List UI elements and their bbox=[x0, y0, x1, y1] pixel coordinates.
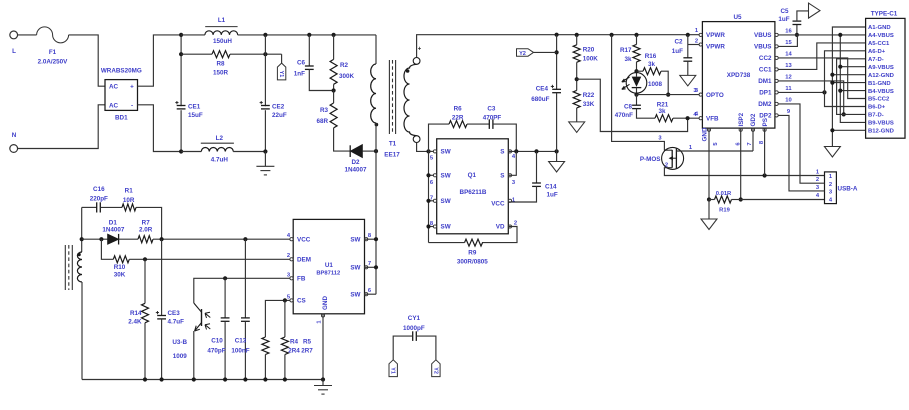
junction bbox=[575, 77, 579, 81]
net flag VBUS arrow bbox=[809, 3, 821, 18]
svg-text:A12-GND: A12-GND bbox=[868, 73, 894, 79]
svg-text:BP6211B: BP6211B bbox=[460, 189, 487, 196]
svg-text:B6-D+: B6-D+ bbox=[868, 105, 886, 111]
svg-text:22uF: 22uF bbox=[272, 112, 287, 119]
svg-text:14: 14 bbox=[785, 52, 792, 58]
wire bbox=[416, 336, 436, 360]
svg-text:1008: 1008 bbox=[648, 81, 663, 88]
svg-text:U1: U1 bbox=[325, 262, 334, 269]
wire bbox=[138, 105, 182, 152]
svg-text:L1: L1 bbox=[218, 17, 226, 24]
wire bbox=[161, 319, 163, 380]
svg-text:Q1: Q1 bbox=[468, 172, 477, 179]
svg-text:SW: SW bbox=[441, 224, 451, 231]
svg-text:300K: 300K bbox=[339, 73, 355, 80]
svg-text:SW: SW bbox=[441, 198, 451, 205]
svg-text:1nF: 1nF bbox=[294, 71, 305, 78]
wire VBUS row bbox=[778, 34, 865, 36]
svg-text:470nF: 470nF bbox=[615, 112, 633, 119]
svg-text:U5: U5 bbox=[733, 14, 742, 21]
ground triangle R19 bbox=[701, 219, 717, 230]
wire bbox=[365, 293, 377, 295]
wire B12 bbox=[832, 129, 865, 131]
wire bbox=[429, 200, 437, 202]
wire bbox=[467, 123, 489, 125]
svg-text:GND: GND bbox=[322, 296, 329, 310]
wire bbox=[687, 61, 689, 75]
junction bbox=[192, 377, 196, 381]
wire bbox=[576, 108, 578, 122]
wire bbox=[375, 123, 377, 151]
svg-text:1N4007: 1N4007 bbox=[102, 227, 125, 234]
junction bbox=[321, 377, 325, 381]
svg-text:30K: 30K bbox=[114, 272, 126, 279]
wire bbox=[136, 207, 162, 239]
wire bbox=[362, 150, 376, 152]
junction bbox=[634, 69, 638, 73]
diode D2 bbox=[344, 145, 367, 174]
wire source to USB1 bbox=[664, 168, 824, 176]
svg-text:680uF: 680uF bbox=[531, 96, 549, 103]
junction bbox=[514, 149, 518, 153]
svg-text:2R4: 2R4 bbox=[288, 348, 300, 355]
junction bbox=[426, 199, 430, 203]
wire VCC row bbox=[153, 238, 293, 240]
wire bbox=[556, 35, 558, 152]
transformer T1 secondary winding bbox=[404, 47, 422, 143]
resistor R22 bbox=[573, 90, 595, 108]
svg-text:2: 2 bbox=[695, 39, 698, 45]
capacitor C16 bbox=[97, 202, 101, 212]
svg-text:L2: L2 bbox=[216, 135, 224, 142]
resistor R8 bbox=[212, 51, 230, 77]
svg-text:13: 13 bbox=[785, 63, 792, 69]
wire GND bus bbox=[832, 27, 865, 147]
junction bbox=[555, 149, 559, 153]
transistor P-MOS bbox=[640, 147, 684, 169]
wire bbox=[230, 53, 282, 55]
terminal N bbox=[10, 145, 18, 153]
junction bbox=[838, 33, 842, 37]
inductor L1 bbox=[205, 17, 238, 45]
svg-text:R10: R10 bbox=[114, 264, 126, 271]
svg-text:R4: R4 bbox=[290, 339, 299, 346]
svg-text:+: + bbox=[130, 84, 134, 91]
svg-text:VD: VD bbox=[496, 224, 505, 231]
svg-text:C8: C8 bbox=[624, 104, 633, 111]
wire OPTO bbox=[637, 94, 700, 96]
wire bbox=[375, 151, 377, 294]
IC U1 BP87112 bbox=[293, 219, 364, 313]
svg-text:R7: R7 bbox=[142, 220, 151, 227]
net flag Y2 bbox=[517, 49, 534, 57]
capacitor CE2 bbox=[261, 106, 270, 109]
ground (earth) U1 bbox=[314, 386, 332, 395]
svg-text:10R: 10R bbox=[123, 197, 135, 204]
svg-text:A6-D+: A6-D+ bbox=[868, 49, 886, 55]
svg-text:220pF: 220pF bbox=[90, 196, 108, 203]
wire feedback tap bbox=[577, 79, 688, 131]
wire DP2 to USB3 bbox=[778, 115, 824, 190]
wire bbox=[81, 282, 83, 380]
junction bbox=[263, 52, 267, 56]
svg-text:B4-VBUS: B4-VBUS bbox=[868, 89, 894, 95]
wire bbox=[534, 51, 557, 53]
svg-text:16: 16 bbox=[785, 29, 792, 35]
svg-text:CE4: CE4 bbox=[536, 86, 549, 93]
wire bbox=[224, 278, 226, 318]
junction bbox=[263, 149, 267, 153]
wire bbox=[101, 239, 113, 259]
wire bbox=[224, 321, 226, 379]
wire VBUS bus bbox=[840, 35, 865, 123]
wire bbox=[82, 206, 97, 208]
wire bbox=[661, 71, 668, 94]
wire bbox=[18, 105, 105, 149]
capacitor C8 bbox=[632, 105, 641, 108]
svg-text:N: N bbox=[12, 132, 17, 139]
svg-text:CS: CS bbox=[297, 298, 306, 305]
svg-text:A5-CC1: A5-CC1 bbox=[868, 41, 890, 47]
svg-text:100K: 100K bbox=[583, 56, 599, 63]
junction bbox=[374, 265, 378, 269]
svg-text:ISP2: ISP2 bbox=[738, 112, 745, 126]
svg-text:0.01R: 0.01R bbox=[716, 191, 732, 197]
net flag Y2 bottom bbox=[432, 360, 440, 377]
junction bbox=[179, 149, 183, 153]
capacitor C5 bbox=[793, 21, 802, 24]
wire GD2 stub bbox=[752, 128, 754, 151]
svg-text:C10: C10 bbox=[211, 338, 223, 345]
wire bbox=[308, 35, 310, 66]
svg-text:U3-B: U3-B bbox=[172, 339, 187, 346]
junction bbox=[332, 33, 336, 37]
wire bbox=[284, 355, 286, 380]
svg-text:SW: SW bbox=[350, 237, 360, 244]
svg-text:VCC: VCC bbox=[491, 200, 505, 207]
wire VFB bbox=[673, 117, 699, 119]
wire bbox=[181, 34, 205, 36]
wire bbox=[636, 95, 638, 106]
junction bbox=[830, 81, 834, 85]
wire B1 bbox=[832, 82, 865, 84]
wire bbox=[797, 11, 809, 21]
svg-text:+: + bbox=[418, 47, 422, 53]
wire bbox=[576, 35, 578, 45]
svg-text:10: 10 bbox=[785, 98, 791, 104]
capacitor C13 bbox=[241, 318, 250, 321]
wire DM2 to USB2 bbox=[778, 104, 824, 183]
wire bbox=[429, 242, 465, 244]
junction bbox=[666, 93, 670, 97]
wire bottom rail bbox=[82, 379, 323, 381]
svg-text:TYPE-C1: TYPE-C1 bbox=[871, 11, 898, 18]
junction bbox=[307, 33, 311, 37]
svg-text:7: 7 bbox=[747, 142, 753, 145]
svg-text:470pF: 470pF bbox=[207, 348, 225, 355]
junction bbox=[223, 377, 227, 381]
wire bbox=[309, 69, 333, 90]
svg-text:B7-D-: B7-D- bbox=[868, 113, 884, 119]
net flag Y1 bbox=[277, 63, 285, 80]
svg-text:R17: R17 bbox=[620, 47, 632, 54]
junction bbox=[555, 50, 559, 54]
junction bbox=[830, 128, 834, 132]
wire bbox=[322, 314, 324, 380]
wire drain to GD2 bbox=[676, 150, 753, 152]
svg-text:S: S bbox=[500, 149, 504, 156]
wire A12 bbox=[832, 74, 865, 76]
junction bbox=[332, 88, 336, 92]
svg-text:SW: SW bbox=[350, 265, 360, 272]
junction bbox=[283, 298, 287, 302]
svg-text:68R: 68R bbox=[316, 118, 328, 125]
svg-text:2R7: 2R7 bbox=[301, 348, 313, 355]
IC Q1 BP6211B bbox=[437, 139, 509, 234]
junction bbox=[143, 257, 147, 261]
junction bbox=[763, 173, 767, 177]
svg-text:BP87112: BP87112 bbox=[316, 271, 340, 277]
svg-text:Y1: Y1 bbox=[278, 71, 284, 78]
wire bbox=[429, 150, 437, 152]
svg-text:33K: 33K bbox=[583, 101, 595, 108]
wire to USB pin4 bbox=[741, 199, 825, 201]
wire bbox=[100, 206, 122, 208]
svg-text:USB-A: USB-A bbox=[838, 186, 858, 193]
wire bbox=[180, 35, 182, 152]
wire bbox=[281, 54, 283, 63]
svg-text:C5: C5 bbox=[780, 8, 789, 15]
svg-text:R3: R3 bbox=[320, 107, 329, 114]
wire bbox=[429, 124, 450, 151]
junction bbox=[160, 237, 164, 241]
resistor R7 bbox=[138, 220, 153, 243]
wire bbox=[429, 174, 437, 176]
ground triangle C2 bbox=[680, 75, 696, 86]
junction bbox=[795, 33, 799, 37]
svg-text:CE2: CE2 bbox=[272, 104, 285, 111]
wire bbox=[637, 70, 644, 72]
junction bbox=[426, 224, 430, 228]
svg-text:SW: SW bbox=[441, 149, 451, 156]
wire bbox=[417, 35, 699, 58]
svg-text:XPD738: XPD738 bbox=[727, 72, 751, 79]
ground triangle TYPE-C bbox=[824, 147, 840, 158]
wire bbox=[81, 207, 83, 252]
wire bbox=[636, 62, 638, 77]
connector USB-A bbox=[825, 172, 858, 204]
capacitor CE4 bbox=[552, 89, 561, 92]
junction bbox=[179, 33, 183, 37]
junction bbox=[426, 149, 430, 153]
wire bbox=[732, 199, 741, 201]
connector TYPE-C1 bbox=[866, 11, 905, 139]
junction bbox=[534, 149, 538, 153]
svg-text:R14: R14 bbox=[130, 310, 142, 317]
junction bbox=[838, 89, 842, 93]
svg-text:R1: R1 bbox=[125, 188, 134, 195]
svg-text:2: 2 bbox=[287, 253, 290, 259]
wire bbox=[365, 238, 377, 240]
capacitor C6 bbox=[305, 66, 314, 69]
wire bbox=[333, 35, 335, 60]
svg-text:3k: 3k bbox=[648, 61, 656, 68]
wire bbox=[429, 226, 437, 228]
wire bbox=[334, 128, 351, 151]
svg-text:R16: R16 bbox=[645, 53, 657, 60]
wire bbox=[181, 53, 212, 55]
svg-text:C14: C14 bbox=[545, 184, 557, 191]
junction bbox=[143, 377, 147, 381]
junction bbox=[374, 237, 378, 241]
wire bbox=[508, 151, 516, 175]
junction bbox=[707, 197, 711, 201]
wire bbox=[365, 266, 377, 268]
wire D+ bus bbox=[825, 51, 866, 107]
svg-text:DM1: DM1 bbox=[758, 78, 772, 85]
svg-text:F1: F1 bbox=[49, 49, 57, 56]
svg-text:P-MOS: P-MOS bbox=[640, 156, 661, 163]
svg-text:AC: AC bbox=[109, 84, 119, 91]
svg-text:100nF: 100nF bbox=[231, 348, 249, 355]
svg-text:1N4007: 1N4007 bbox=[344, 166, 367, 173]
wire GND stub bbox=[708, 128, 710, 199]
wire bbox=[778, 35, 797, 47]
junction bbox=[263, 33, 267, 37]
svg-text:3k: 3k bbox=[624, 56, 632, 63]
wire ISP2 stub bbox=[740, 128, 742, 199]
svg-text:R20: R20 bbox=[583, 47, 595, 54]
svg-text:VPWR: VPWR bbox=[706, 44, 725, 51]
svg-text:Y2: Y2 bbox=[432, 367, 438, 374]
svg-text:CE3: CE3 bbox=[168, 310, 181, 317]
svg-text:2: 2 bbox=[829, 182, 832, 188]
junction bbox=[634, 33, 638, 37]
junction bbox=[99, 237, 103, 241]
svg-text:7: 7 bbox=[430, 196, 433, 202]
svg-text:R8: R8 bbox=[216, 61, 225, 68]
wire bbox=[417, 143, 429, 152]
junction bbox=[179, 52, 183, 56]
svg-text:BD1: BD1 bbox=[115, 115, 128, 122]
junction bbox=[575, 33, 579, 37]
svg-text:2.0R: 2.0R bbox=[139, 227, 153, 234]
IC U5 XPD738 bbox=[701, 14, 775, 142]
svg-text:22R: 22R bbox=[452, 115, 464, 122]
fuse F1 bbox=[37, 27, 69, 66]
wire bbox=[119, 238, 138, 240]
wire gate bbox=[612, 35, 673, 150]
svg-text:GD2: GD2 bbox=[750, 113, 757, 126]
junction bbox=[822, 90, 826, 94]
wire bbox=[244, 239, 246, 318]
wire bbox=[482, 227, 517, 243]
svg-text:CC1: CC1 bbox=[759, 67, 772, 74]
svg-text:15: 15 bbox=[785, 40, 792, 46]
wire bbox=[556, 151, 558, 161]
svg-text:C3: C3 bbox=[487, 106, 496, 113]
wire DEM row bbox=[129, 258, 293, 260]
svg-text:DP1: DP1 bbox=[759, 90, 772, 97]
junction bbox=[634, 93, 638, 97]
wire D- bus bbox=[837, 59, 866, 115]
junction bbox=[426, 173, 430, 177]
svg-text:470PF: 470PF bbox=[483, 115, 502, 122]
svg-text:CY1: CY1 bbox=[408, 315, 421, 322]
transformer T1 core bbox=[384, 60, 400, 159]
aux core bbox=[65, 245, 72, 290]
wire PS stub bbox=[764, 128, 766, 175]
capacitor C3 bbox=[489, 119, 493, 129]
svg-text:D2: D2 bbox=[351, 159, 360, 166]
svg-text:DM2: DM2 bbox=[758, 101, 772, 108]
svg-text:2: 2 bbox=[816, 177, 819, 183]
svg-text:CC2: CC2 bbox=[759, 55, 772, 62]
svg-text:B1-GND: B1-GND bbox=[868, 81, 891, 87]
svg-text:VCC: VCC bbox=[297, 237, 311, 244]
svg-text:7: 7 bbox=[368, 261, 371, 267]
svg-text:A1-GND: A1-GND bbox=[868, 25, 891, 31]
junction bbox=[263, 377, 267, 381]
junction bbox=[830, 73, 834, 77]
svg-text:L: L bbox=[12, 48, 16, 55]
junction bbox=[838, 65, 842, 69]
wire A9 bbox=[840, 66, 865, 68]
capacitor C2 bbox=[683, 58, 692, 61]
svg-text:B5-CC2: B5-CC2 bbox=[868, 97, 890, 103]
junction bbox=[80, 237, 84, 241]
wire bbox=[636, 35, 638, 45]
wire bbox=[322, 380, 324, 386]
svg-text:300R/0805: 300R/0805 bbox=[457, 259, 488, 266]
wire bbox=[709, 199, 715, 201]
wire bbox=[18, 34, 37, 36]
svg-text:C2: C2 bbox=[674, 39, 683, 46]
wire bbox=[264, 152, 266, 167]
svg-text:SW: SW bbox=[441, 173, 451, 180]
wire bbox=[687, 45, 689, 58]
svg-text:1000pF: 1000pF bbox=[403, 325, 425, 332]
wire bbox=[687, 35, 689, 45]
wire bbox=[238, 34, 376, 36]
wire bbox=[69, 35, 105, 86]
wire bbox=[393, 336, 413, 360]
wire bbox=[536, 151, 538, 183]
svg-text:SW: SW bbox=[350, 292, 360, 299]
svg-text:1009: 1009 bbox=[173, 353, 188, 360]
wire bbox=[333, 84, 335, 90]
svg-text:Y2: Y2 bbox=[519, 51, 526, 57]
svg-text:C13: C13 bbox=[235, 338, 247, 345]
inductor L2 bbox=[201, 135, 234, 164]
bridge rectifier BD1 bbox=[101, 68, 142, 122]
svg-text:R5: R5 bbox=[303, 339, 312, 346]
wire bbox=[264, 35, 266, 152]
svg-text:A4-VBUS: A4-VBUS bbox=[868, 33, 894, 39]
wire bbox=[333, 91, 335, 104]
wire bbox=[796, 25, 798, 35]
wire bbox=[576, 62, 578, 90]
junction bbox=[243, 377, 247, 381]
net flag Y1 bottom bbox=[389, 360, 397, 377]
svg-text:2.4K: 2.4K bbox=[128, 319, 142, 326]
junction bbox=[374, 149, 378, 153]
wire bbox=[264, 355, 266, 380]
svg-text:AC: AC bbox=[109, 103, 119, 110]
svg-text:15uF: 15uF bbox=[188, 112, 203, 119]
wire bbox=[284, 300, 286, 337]
wire DP1 bbox=[778, 91, 824, 93]
